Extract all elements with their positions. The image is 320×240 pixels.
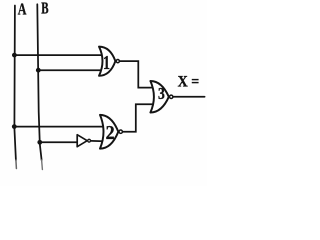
svg-text:A: A <box>18 0 27 19</box>
NOR gate 1 body <box>99 47 115 76</box>
NOR gate 1 output bubble <box>116 60 119 63</box>
wire: gate 1 output to gate 3 upper input <box>120 61 152 88</box>
junction node: A to gate 2 <box>12 124 17 129</box>
svg-text:B: B <box>41 0 48 18</box>
wire: gate 3 output X <box>174 96 205 98</box>
wire: B tap to gate 1 lower input <box>38 69 102 71</box>
input line B <box>37 4 41 160</box>
NOR gate 3 body <box>150 81 168 113</box>
NOR gate 2 body <box>100 115 118 149</box>
wire: A tap to gate 1 upper input <box>14 54 102 56</box>
junction node: A to gate 1 <box>12 53 17 58</box>
junction node: B to gate 1 <box>36 68 41 73</box>
input line A <box>14 6 16 161</box>
wire: inverter output to gate 2 lower input <box>91 140 103 142</box>
wire: A tap to gate 2 upper input <box>14 126 103 128</box>
svg-text:2: 2 <box>106 122 115 144</box>
input line A faded tail <box>15 160 18 169</box>
NOR gate 2 output bubble <box>119 130 122 133</box>
wire: gate 2 output to gate 3 lower input <box>123 104 152 131</box>
svg-text:X =: X = <box>178 73 200 90</box>
NOR gate 3 output bubble <box>170 95 173 98</box>
svg-text:1: 1 <box>103 53 110 74</box>
NOT gate output bubble <box>88 139 91 142</box>
input line B faded tail <box>41 160 44 170</box>
wire: B tap to inverter input <box>40 141 78 143</box>
junction node: B to inverter <box>37 140 42 145</box>
NOT gate (inverter) triangle <box>77 135 87 147</box>
svg-text:3: 3 <box>158 84 165 103</box>
